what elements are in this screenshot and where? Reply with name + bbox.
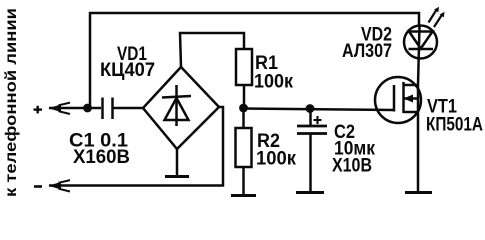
transistor VT1 circle: [375, 77, 421, 123]
wire junction to transistor gate: [243, 109, 394, 111]
svg-text:КП501А: КП501А: [426, 115, 483, 136]
resistor R2: [242, 108, 245, 128]
wire bridge top vertex to R1 top: [180, 33, 244, 67]
node junction dot R1/R2: [239, 104, 248, 113]
diode inside VD1: [175, 85, 178, 126]
wire C1 to bridge left vertex: [113, 107, 145, 110]
transistor VT1 source stub: [404, 111, 419, 114]
ground bar under VT1 source: [405, 191, 432, 194]
terminal arrow plus line: [49, 104, 62, 112]
capacitor C1: [101, 98, 104, 120]
label telephone line (vertical): [3, 8, 20, 197]
transistor VT1 gate electrode: [393, 85, 396, 112]
label VD1: [100, 44, 155, 81]
svg-text:АЛ307: АЛ307: [342, 41, 392, 62]
node A junction dot (plus line / top-rail riser): [83, 104, 92, 113]
wire bridge bottom vertex down: [176, 149, 179, 176]
ground bar under C2: [296, 191, 324, 194]
transistor VT1 substrate stub with arrow: [404, 97, 419, 100]
svg-text:Х160В: Х160В: [73, 147, 130, 168]
label VT1: [426, 97, 483, 136]
wire source down to ground: [417, 85, 420, 192]
label VD2: [342, 25, 392, 63]
LED light arrow 1: [429, 11, 437, 23]
svg-text:к телефонной линии: к телефонной линии: [3, 8, 20, 197]
LED VD2 diode triangle: [409, 32, 433, 49]
svg-text:100к: 100к: [256, 149, 296, 170]
terminal arrow minus line: [49, 182, 62, 190]
svg-text:КЦ407: КЦ407: [100, 60, 155, 81]
wire through LED to transistor drain: [418, 26, 420, 86]
LED light arrow 2: [434, 16, 442, 28]
label C2: [332, 122, 375, 177]
transistor VT1 channel: [402, 82, 405, 113]
wire R1 bottom to junction: [243, 85, 246, 108]
resistor R1: [236, 49, 252, 85]
transistor VT1 drain stub: [404, 84, 419, 87]
label R1: [254, 53, 293, 93]
ground bar under bridge: [165, 175, 189, 178]
wire bridge right vertex to minus rail: [49, 107, 223, 186]
ground bar under R2: [231, 194, 256, 197]
label minus sign: [34, 185, 42, 188]
wire plus line: [49, 107, 101, 110]
capacitor C2: [309, 108, 312, 126]
LED VD2 circle: [404, 26, 437, 59]
label C1 value: [69, 131, 130, 169]
svg-text:Х10В: Х10В: [332, 156, 372, 177]
wire top rail: [90, 13, 419, 107]
label C2 polarity plus: [314, 119, 322, 121]
svg-text:100к: 100к: [254, 72, 293, 93]
bridge rectifier VD1 diamond: [143, 67, 219, 149]
label plus sign: [34, 108, 43, 110]
label R2: [256, 131, 296, 170]
node junction dot C2: [306, 104, 315, 113]
